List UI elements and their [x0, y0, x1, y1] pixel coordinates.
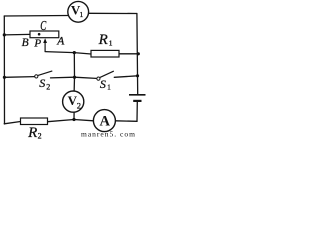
resistor R2: [21, 118, 48, 125]
junction node battery top: [136, 74, 139, 77]
switch S2 blade: [38, 71, 52, 76]
wire center junction to S1: [75, 77, 97, 78]
junction node V2 bottom: [72, 118, 75, 121]
svg-text:1: 1: [107, 83, 111, 91]
svg-text:B: B: [22, 37, 29, 49]
wire R1 to right rail: [119, 53, 138, 55]
junction node wiper wire: [73, 51, 76, 54]
rheostat body (slide resistor B-A): [30, 31, 59, 38]
wire right vertical lower: [136, 102, 138, 122]
voltmeter V1: [68, 1, 89, 22]
svg-text:2: 2: [77, 101, 81, 111]
svg-text:1: 1: [109, 39, 113, 48]
wire S1 to battery junction: [114, 76, 137, 78]
wire right vertical upper: [136, 14, 139, 94]
svg-text:P: P: [33, 38, 41, 50]
resistor R1: [91, 50, 119, 57]
wire S2 to center junction: [51, 76, 75, 79]
wiper arrow shaft P: [44, 41, 46, 52]
wire V2 bottom: [73, 112, 75, 119]
battery long plate: [129, 94, 146, 96]
svg-text:S: S: [100, 77, 106, 91]
svg-text:S: S: [39, 76, 45, 90]
svg-text:manren5. com: manren5. com: [81, 130, 136, 139]
junction node left-middle: [3, 76, 6, 79]
junction node R1 right: [137, 52, 140, 55]
svg-text:A: A: [100, 114, 111, 130]
svg-text:A: A: [56, 36, 65, 48]
wire wiper P to junction: [45, 52, 91, 54]
wire middle vertical (junction to V2): [73, 53, 75, 92]
svg-text:R: R: [27, 125, 37, 139]
switch S1 blade: [100, 71, 114, 77]
ammeter A: [93, 110, 115, 132]
junction node left-B: [3, 33, 6, 36]
battery short plate: [133, 100, 141, 102]
svg-text:2: 2: [38, 132, 42, 139]
svg-text:R: R: [98, 32, 108, 48]
voltmeter V2: [63, 91, 84, 112]
wire middle-left to S2: [4, 76, 34, 79]
wire bottom mid (ammeter to V2 junction): [74, 120, 94, 121]
wire bottom left: [4, 122, 20, 124]
wire top-left horizontal: [4, 15, 68, 18]
wire bottom (V2 junction to R2): [48, 120, 75, 122]
wire bottom right: [115, 120, 137, 123]
svg-text:1: 1: [80, 10, 84, 19]
svg-text:C: C: [40, 18, 47, 33]
svg-text:2: 2: [46, 83, 50, 92]
rheostat contact dot: [38, 33, 41, 36]
junction node middle row: [73, 76, 76, 79]
switch S2 pivot: [35, 75, 38, 78]
wire left vertical: [3, 16, 5, 124]
wire top-right horizontal: [89, 12, 137, 14]
wiper arrow head: [43, 38, 47, 43]
switch S1 pivot: [97, 77, 100, 80]
wire B terminal: [4, 33, 30, 36]
